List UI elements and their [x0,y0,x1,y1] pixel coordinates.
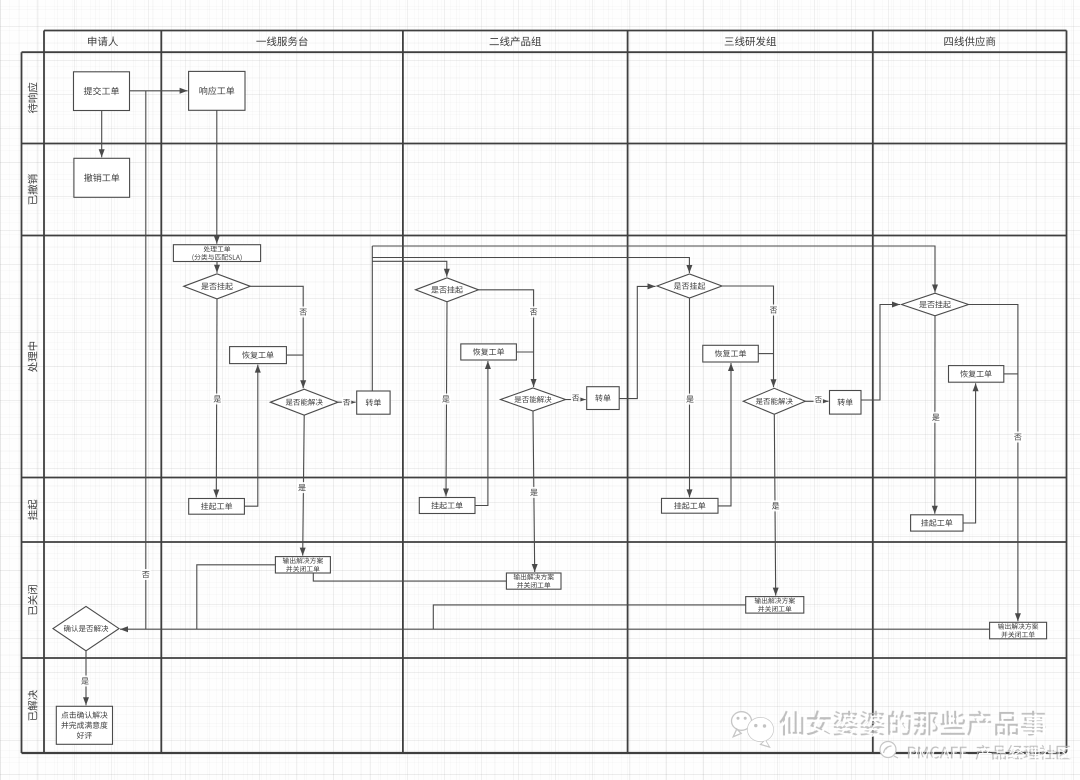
wire 挂起工单4->恢复工单4 [963,383,979,523]
wire 是否能解决1 是->输出1 [300,415,306,555]
label 否3 [529,306,539,317]
process box 输出解决方案并关闭工单2 [506,573,561,589]
wire 转单3->是否挂起4 [861,302,900,401]
wire 输出3->合流 [433,605,745,629]
wire 响应工单->处理工单 [214,110,220,243]
wire 是否挂起2 否->是否能解决2 [479,290,537,387]
process box 响应工单 [189,71,245,110]
label 否5 [769,305,779,316]
wire 挂起工单3->恢复工单3 [718,363,734,506]
process box 提交工单 [74,72,130,111]
process box 转单1 [357,391,390,414]
wire 处理工单->是否挂起1 [214,262,220,273]
process box 恢复工单4 [949,366,1004,383]
decision diamond 是否挂起1 [184,274,251,299]
wire fan lineB ->是否挂起3 [372,258,692,274]
row label 已撤销 [28,174,38,204]
wire 恢复工单2->junction [516,351,533,353]
decision diamond 是否挂起2 [416,278,479,302]
process box 挂起工单1 [189,499,245,515]
wire 输出2->输出1 [313,573,506,581]
wire 转单2->是否挂起3 [619,283,655,398]
header 申请人 [88,36,118,46]
wire fan lineA ->是否挂起4 [372,246,938,293]
header 三线研发组 [725,36,776,46]
watermark text 仙女婆婆的那些产品事 [779,711,1047,739]
wire 合流->确认是否解决 [120,626,990,632]
label 否6 [814,394,824,405]
row label 待响应 [28,83,38,114]
wire 是否挂起2 是->挂起工单2 [443,302,449,497]
watermark text PMCAFF 产品经理社区 [908,745,1072,762]
wire 提交工单->响应工单 [130,88,188,94]
label 是3 [441,394,451,405]
row label 已解决 [28,690,38,720]
wire 提交工单->撤销工单 [99,111,105,158]
process box 挂起工单3 [662,498,719,513]
decision diamond 是否能解决1 [270,389,338,415]
process box 输出解决方案并关闭工单3 [746,597,804,614]
wire 是否能解决2 否->转单2 [566,397,586,403]
header 四线供应商 [944,36,995,46]
decision diamond 是否挂起3 [657,274,722,298]
process box 输出解决方案并关闭工单4 [990,622,1047,639]
label 否2 [342,397,352,408]
process box 转单3 [830,391,862,415]
wire 恢复工单1->junction [286,354,303,356]
decision diamond 是否挂起4 [902,293,969,316]
wire 是否挂起3 否->是否能解决3 [722,286,777,387]
wire 挂起工单2->恢复工单2 [475,361,491,506]
label 是8 [80,676,90,687]
header 一线服务台 [256,36,307,46]
process box 输出解决方案并关闭工单1 [275,557,330,573]
row label 挂起 [28,500,38,520]
wire 是否能解决2 是->输出2 [532,411,538,572]
label 是2 [297,482,307,493]
wire 恢复工单4->junction [1004,373,1018,375]
process box 撤销工单 [74,158,130,197]
wire 是否挂起3 是->挂起工单3 [687,298,693,497]
wire 是否挂起1 否->是否能解决1 [250,286,306,388]
wire 是否能解决3 是->输出3 [773,415,779,596]
label 是7 [931,412,941,423]
decision diamond 是否能解决2 [501,388,566,411]
process box 挂起工单2 [419,498,475,514]
process box 挂起工单4 [911,515,963,531]
process box 转单2 [587,387,620,410]
wire 确认是否解决 是->点击确认 [83,651,89,706]
row label 已关闭 [28,585,38,615]
label 是4 [529,487,539,498]
wire 是否能解决1 否->转单1 [338,399,356,405]
label 是1 [212,394,222,405]
wire 是否挂起1 是->挂起工单1 [213,299,219,498]
label 是6 [771,500,781,511]
wire 挂起工单1->恢复工单1 [244,365,260,507]
watermark wechat icon [732,712,774,747]
label 否1 [298,307,308,318]
row label 处理中 [28,342,38,372]
wire 是否挂起4 否->输出4 [969,305,1021,622]
decision diamond 确认是否解决 [53,606,119,650]
process box 恢复工单3 [703,345,759,362]
wire 输出1->合流 [197,565,276,629]
wire 是否能解决3 否->转单3 [805,398,828,404]
wire 是否挂起4 是->挂起工单4 [932,316,938,514]
wire fan lineC ->是否挂起2 [372,261,450,277]
process box 点击确认解决并完成满意度好评 [56,706,112,744]
watermark pmcaff icon [880,742,898,759]
header 二线产品组 [490,36,541,46]
process box 处理工单 [173,245,260,262]
label 否7 [1013,432,1023,443]
label 否0 [141,569,151,580]
decision diamond 是否能解决3 [743,388,805,414]
wire 否 feedback 确认是否解决->提交工单 [145,91,147,629]
wire 恢复工单3->junction [758,353,773,355]
process box 恢复工单1 [230,347,287,364]
label 否4 [571,393,581,404]
label 是5 [685,394,695,405]
wire 转单1 riser [371,246,373,391]
process box 恢复工单2 [461,344,517,360]
